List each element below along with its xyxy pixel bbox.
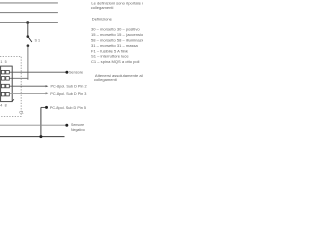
wire pin3 to Sub D pin2 (9, 85, 46, 87)
node sensor terminal (65, 71, 68, 74)
connector pin squares column 2 (6, 70, 10, 96)
svg-text:PC-8pol. Sub D Pin 2: PC-8pol. Sub D Pin 2 (51, 85, 87, 89)
svg-text:4: 4 (0, 103, 2, 107)
svg-text:Definizione: Definizione (92, 17, 113, 22)
svg-text:PC-8pol. Sub D Pin 5: PC-8pol. Sub D Pin 5 (50, 106, 86, 110)
arrow Sub D pin2 (46, 85, 49, 87)
svg-text:15 – morsetto 15 – (accensione: 15 – morsetto 15 – (accensione (91, 32, 143, 37)
svg-text:collegamenti: collegamenti (91, 5, 114, 10)
connector pin squares column 1 (1, 70, 5, 96)
node junction bus 58 (26, 21, 29, 24)
node ground rail junction (39, 135, 42, 138)
wire Sub D pin5 stub (41, 106, 45, 108)
svg-text:5: 5 (5, 60, 7, 64)
svg-text:C1 – spina MQS a otto poli: C1 – spina MQS a otto poli (91, 59, 139, 64)
note text right column (91, 1, 162, 83)
svg-text:8: 8 (5, 103, 7, 107)
svg-text:30 – morsetto 30 – positivo: 30 – morsetto 30 – positivo (91, 26, 140, 31)
svg-text:collegamenti: collegamenti (94, 77, 117, 82)
svg-text:PC-8pol. Sub D Pin 3: PC-8pol. Sub D Pin 3 (50, 92, 86, 96)
connector C1 body (1, 66, 13, 102)
svg-text:Sensore: Sensore (71, 123, 84, 127)
wire pin5 drop (40, 107, 42, 136)
wire switch to connector pin2 (27, 46, 29, 80)
wire bus line 58 (0, 22, 58, 24)
svg-text:Negativo: Negativo (71, 128, 85, 132)
dashed enclosure C1 (0, 56, 21, 116)
wire bus line 30 (0, 2, 58, 4)
svg-text:C1: C1 (19, 110, 24, 114)
svg-text:58 – morsetto 58 – illuminazio: 58 – morsetto 58 – illuminazione (91, 37, 143, 42)
node Sub D pin5 (45, 106, 48, 109)
wire ground rail (0, 136, 65, 138)
svg-text:F1 – fusibile 5 A flink: F1 – fusibile 5 A flink (91, 48, 129, 53)
svg-text:S1 – interruttore luce: S1 – interruttore luce (91, 54, 129, 59)
svg-text:1: 1 (0, 60, 2, 64)
wire pin1 to sensor (9, 71, 65, 73)
wire bus line 15 (0, 12, 58, 14)
switch S1 (27, 35, 32, 47)
wire pin4 to Sub D pin3 (9, 92, 46, 94)
svg-text:31 – morsetto 31 – massa: 31 – morsetto 31 – massa (91, 43, 139, 48)
arrow Sub D pin3 (46, 92, 49, 94)
wire sensor negative rail (0, 124, 65, 126)
svg-text:Sensore: Sensore (69, 71, 83, 75)
svg-text:S 1: S 1 (35, 39, 41, 43)
tick connector corner (12, 99, 14, 101)
wire bus 58 to switch (27, 23, 29, 37)
node sensor negative terminal (65, 124, 68, 127)
